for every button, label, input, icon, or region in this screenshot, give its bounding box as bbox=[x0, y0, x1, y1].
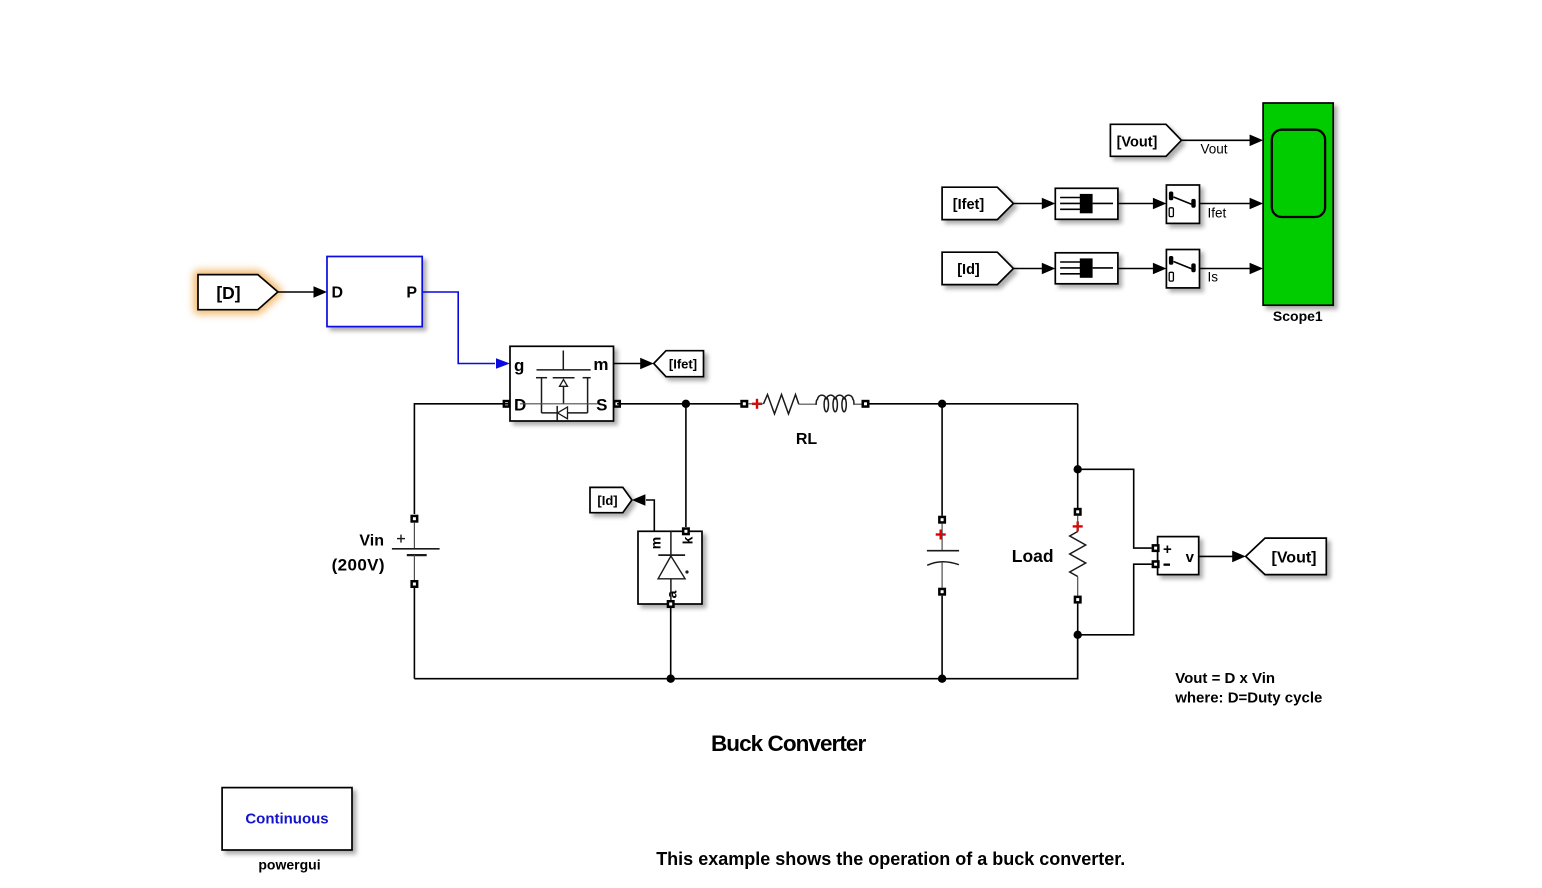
annotation Vout equation bbox=[1174, 670, 1322, 707]
diode a port square bbox=[667, 600, 675, 608]
wire [D] to PWM block bbox=[277, 286, 327, 298]
svg-text:[Vout]: [Vout] bbox=[1271, 550, 1316, 567]
svg-text:Load: Load bbox=[1012, 546, 1054, 566]
goto tag [Ifet] bbox=[654, 351, 704, 377]
voltage measurement U2 bbox=[1158, 537, 1199, 575]
svg-text:[D]: [D] bbox=[216, 283, 240, 303]
wire node B down to capacitor bbox=[941, 404, 943, 516]
node D junction bbox=[1074, 631, 1082, 639]
wire [Id] to rate block 2 bbox=[1013, 263, 1055, 275]
wire rate block 2 to switch 2 bbox=[1118, 263, 1167, 275]
wire switch 2 to scope bbox=[1200, 263, 1264, 285]
svg-text:[Vout]: [Vout] bbox=[1117, 135, 1158, 151]
svg-text:[Id]: [Id] bbox=[957, 262, 980, 278]
svg-text:g: g bbox=[514, 356, 524, 375]
svg-text:[Id]: [Id] bbox=[597, 493, 617, 508]
scope Scope1 bbox=[1263, 103, 1333, 324]
goto tag [Id] bbox=[590, 487, 632, 512]
wire mosfet m to goto [Ifet] bbox=[614, 358, 654, 370]
goto tag [Vout] bbox=[1246, 538, 1327, 575]
svg-text:[Ifet]: [Ifet] bbox=[953, 197, 985, 213]
wire switch 1 to scope bbox=[1200, 198, 1264, 221]
wire capacitor to ground bus bbox=[941, 596, 943, 679]
svg-text:(200V): (200V) bbox=[332, 556, 385, 575]
wire mosfet S to node A and RL bbox=[617, 403, 744, 405]
svg-text:v: v bbox=[1186, 549, 1195, 566]
svg-text:powergui: powergui bbox=[258, 857, 320, 873]
wire node C to voltmeter plus bbox=[1078, 469, 1152, 548]
svg-text:Scope1: Scope1 bbox=[1273, 308, 1323, 324]
wire PWM P to mosfet gate (blue) bbox=[422, 292, 510, 369]
from tag [Id] bbox=[942, 252, 1013, 284]
wire RL to node B bbox=[870, 403, 1078, 405]
svg-text:S: S bbox=[596, 396, 607, 415]
node B junction bbox=[938, 400, 946, 408]
wire diode m to goto [Id] bbox=[632, 494, 654, 531]
wire rate block 1 to switch 1 bbox=[1118, 198, 1167, 210]
svg-text:m: m bbox=[648, 537, 664, 549]
svg-text:Buck Converter: Buck Converter bbox=[711, 731, 866, 756]
svg-text:Ifet: Ifet bbox=[1208, 206, 1227, 221]
manual switch 1 bbox=[1166, 185, 1199, 223]
wire mosfet D to Vin top bbox=[414, 404, 510, 514]
wire [Ifet] to rate block bbox=[1013, 198, 1055, 210]
wire load bottom bbox=[1077, 604, 1079, 679]
node A junction bbox=[682, 400, 690, 408]
PWM generator subsystem U1 bbox=[327, 257, 422, 327]
dc voltage source Vin (200V) bbox=[332, 515, 440, 588]
svg-text:Vin: Vin bbox=[359, 533, 384, 550]
series RLC branch RL bbox=[740, 395, 869, 449]
manual switch 2 bbox=[1166, 250, 1199, 288]
svg-text:This example shows the operati: This example shows the operation of a bu… bbox=[656, 849, 1125, 869]
powergui block bbox=[222, 788, 352, 873]
mosfet block Q1 bbox=[510, 346, 614, 421]
capacitor C1 bbox=[927, 516, 959, 596]
junction capacitor ground bbox=[938, 675, 946, 683]
diode block D1 bbox=[638, 531, 702, 604]
junction diode ground bbox=[667, 675, 675, 683]
svg-text:+: + bbox=[1163, 541, 1172, 558]
voltmeter minus port square bbox=[1152, 560, 1160, 568]
from tag [Vout] bbox=[1110, 124, 1181, 156]
mosfet S port square bbox=[613, 400, 621, 408]
svg-text:Continuous: Continuous bbox=[245, 811, 328, 828]
svg-text:where: D=Duty cycle: where: D=Duty cycle bbox=[1174, 690, 1322, 707]
node C junction bbox=[1074, 465, 1082, 473]
rate transition block 1 bbox=[1055, 188, 1118, 219]
from tag [Ifet] bbox=[942, 187, 1013, 219]
svg-text:k: k bbox=[680, 536, 696, 544]
wire voltmeter to goto [Vout] bbox=[1199, 551, 1246, 563]
diode k port square bbox=[682, 527, 690, 535]
wire node D to voltmeter minus bbox=[1078, 564, 1152, 635]
rate transition block 2 bbox=[1055, 253, 1118, 284]
wire node B to load branch bbox=[1077, 404, 1079, 512]
svg-text:D: D bbox=[332, 285, 344, 302]
svg-text:P: P bbox=[406, 285, 417, 302]
svg-text:Vout: Vout bbox=[1201, 142, 1228, 157]
voltmeter plus port square bbox=[1152, 544, 1160, 552]
from tag [D] bbox=[198, 275, 278, 310]
svg-text:RL: RL bbox=[796, 431, 818, 448]
wire node A down to diode k bbox=[685, 404, 687, 527]
svg-text:Vout = D x Vin: Vout = D x Vin bbox=[1175, 670, 1275, 687]
svg-text:[Ifet]: [Ifet] bbox=[669, 357, 697, 372]
load resistor Load bbox=[1012, 508, 1086, 604]
wire [Vout] to scope bbox=[1181, 135, 1263, 157]
ground bus wire bbox=[414, 635, 1077, 679]
svg-text:D: D bbox=[514, 396, 526, 415]
mosfet D port square bbox=[503, 400, 511, 408]
svg-text:m: m bbox=[593, 355, 608, 374]
svg-text:Is: Is bbox=[1208, 270, 1219, 285]
wire diode a to ground bus bbox=[670, 608, 672, 679]
wire Vin bottom to ground bus bbox=[413, 588, 415, 679]
